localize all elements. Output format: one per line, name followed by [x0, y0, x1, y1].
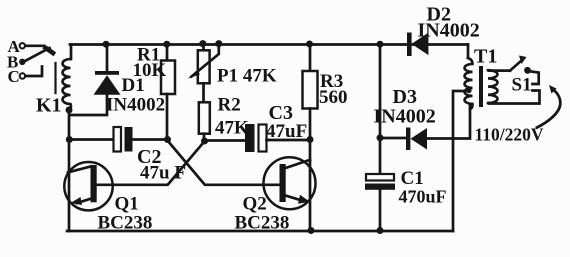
capacitor C1: [365, 174, 395, 190]
resistor R2: [199, 102, 210, 133]
svg-text:IN4002: IN4002: [418, 20, 480, 42]
transformer T1 secondary coil: [465, 58, 473, 109]
node +V top rail junction: [377, 41, 384, 48]
svg-text:BC238: BC238: [235, 213, 290, 234]
wire T1 center tap: [453, 91, 467, 231]
resistor R3: [309, 45, 312, 72]
wire top supply rail: [70, 43, 468, 46]
switch S1 blade: [510, 61, 522, 71]
svg-text:470uF: 470uF: [399, 187, 447, 207]
wire bottom ground rail: [67, 230, 453, 233]
node C1 ground junction: [377, 227, 384, 234]
svg-text:BC238: BC238: [98, 213, 153, 234]
capacitor C2: [114, 127, 133, 152]
terminal B: [19, 59, 25, 65]
transistor Q2: [264, 157, 316, 209]
svg-text:S1: S1: [512, 75, 532, 96]
potentiometer P1: [202, 45, 205, 51]
wire top-left corner to relay coil: [70, 45, 73, 60]
node R3 top rail junction: [306, 41, 313, 48]
capacitor C3: [245, 124, 267, 152]
svg-text:110/220V: 110/220V: [475, 125, 544, 145]
svg-text:IN4002: IN4002: [374, 106, 436, 128]
node D3 junction: [377, 134, 384, 141]
terminal A: [20, 43, 25, 48]
wire D3 left: [380, 137, 406, 140]
node C3/R3 junction: [307, 136, 314, 143]
node C2/R1 junction: [164, 136, 171, 143]
svg-text:47K: 47K: [215, 118, 249, 139]
node S1 contact: [524, 67, 531, 74]
svg-text:10K: 10K: [133, 60, 167, 81]
svg-text:K1: K1: [36, 95, 62, 117]
relay K1 coil: [62, 59, 71, 111]
wire cross-couple R2 to Q1 base: [97, 142, 205, 185]
wire C3 right: [267, 139, 311, 142]
terminal C: [20, 73, 25, 78]
wire rail corner to T1 secondary: [467, 45, 470, 59]
wire D1 top lead: [106, 45, 109, 72]
transistor Q1: [64, 162, 112, 210]
node D1 top rail junction: [103, 41, 110, 48]
wire left vertical (coil bottom to ground): [68, 110, 71, 231]
node P1 rail junction: [199, 40, 206, 47]
wire D1 elbow: [71, 95, 107, 116]
wire +V vertical D2/D3/C1: [379, 45, 382, 175]
P1 wiper arrow: [192, 44, 219, 77]
wire C2 left: [69, 138, 114, 141]
svg-text:Q2: Q2: [243, 194, 267, 215]
node center tap joint: [466, 88, 471, 93]
wire cross-couple C2 to Q2 base: [168, 141, 280, 185]
relay armature wire B: [25, 48, 50, 61]
relay contact blade tip: [46, 48, 54, 53]
wire C contact: [25, 67, 42, 77]
wire primary top to switch: [489, 69, 510, 72]
node R1 top rail junction: [163, 41, 170, 48]
wire D3 right to secondary bottom: [427, 105, 470, 139]
wire C1 bottom lead: [379, 190, 382, 231]
svg-text:47u F: 47u F: [140, 163, 186, 184]
node Q2 emitter ground junction: [308, 227, 315, 234]
node R2/C3 junction: [201, 138, 208, 145]
relay K1 core bar: [54, 63, 56, 93]
svg-text:Q1: Q1: [115, 194, 139, 215]
transformer T1 primary coil: [488, 70, 498, 103]
node P1 wiper rail junction: [215, 40, 222, 47]
wire C2 right: [133, 138, 168, 141]
diode D3: [406, 128, 427, 151]
mains plug arrow: [537, 89, 560, 128]
transformer T1 core: [479, 66, 483, 107]
svg-text:47uF: 47uF: [266, 121, 307, 142]
svg-text:R2: R2: [218, 95, 241, 116]
resistor R1: [166, 45, 169, 61]
svg-text:T1: T1: [474, 46, 497, 68]
svg-text:560: 560: [319, 87, 348, 108]
diode D1: [94, 71, 121, 95]
wire C3 left: [205, 139, 246, 142]
svg-text:IN4002: IN4002: [106, 95, 165, 116]
svg-text:P1 47K: P1 47K: [217, 66, 277, 87]
diode D2: [407, 33, 428, 57]
node K1/D1 junction: [66, 107, 73, 114]
wire A contact: [25, 44, 44, 47]
svg-text:C: C: [8, 67, 20, 86]
node C2 left junction: [66, 136, 73, 143]
wire S1 to upper plug terminal: [528, 71, 539, 84]
wire R3 to Q2 collector/emitter vertical: [309, 109, 312, 232]
wire lower plug terminal to primary bottom: [489, 91, 540, 104]
